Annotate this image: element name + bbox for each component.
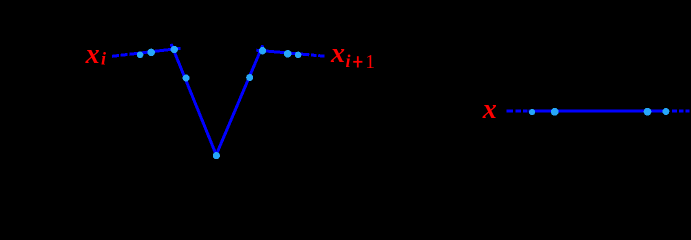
svg-text:i: i: [101, 49, 106, 69]
svg-text:x: x: [330, 38, 345, 69]
svg-text:i: i: [346, 51, 351, 71]
svg-text:1: 1: [365, 52, 375, 73]
svg-text:x: x: [482, 94, 497, 125]
svg-text:x: x: [85, 39, 100, 70]
